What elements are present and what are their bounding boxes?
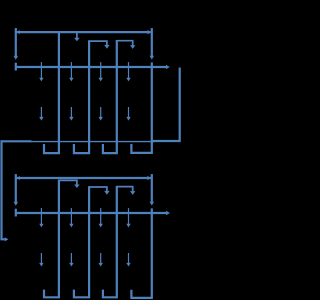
arrow R1C4 row1 thin arrow — [126, 62, 130, 81]
wire V3 vertical from H1 with bottom hook loop — [44, 32, 59, 153]
arrow R4C3 row4 thin arrow — [99, 253, 103, 267]
wire B1 bracket riser with bottom hook loop — [74, 40, 89, 153]
arrow R2C1 row2 thin arrow — [39, 107, 43, 121]
wire H1 top bus with arrowheads both ends — [16, 30, 151, 34]
wire B2b bracket top with down arrow — [117, 187, 136, 195]
arrow A1 short down arrow from H1 — [74, 32, 80, 41]
arrow R3C2 row3 thin arrow — [69, 208, 73, 227]
arrow R2C3 row2 thin arrow — [99, 107, 103, 121]
wire B1b bracket riser with bottom hook loop — [74, 186, 89, 297]
arrow R2C2 row2 thin arrow — [69, 107, 73, 121]
node V1 stub at H2 left end — [15, 63, 17, 71]
arrow R2C4 row2 thin arrow — [126, 107, 130, 121]
arrow R3C4 row3 thin arrow — [126, 208, 130, 227]
arrow R3C3 row3 thin arrow — [99, 208, 103, 227]
wire left feedback route with right arrow — [2, 140, 9, 241]
arrow R4C2 row4 thin arrow — [69, 253, 73, 267]
arrow R1C1 row1 thin arrow — [39, 62, 43, 81]
node V1b stub at H2b left end — [15, 209, 17, 217]
wire H3b bottom bus thin segment — [31, 141, 155, 143]
arrow R1C2 row1 thin arrow — [69, 62, 73, 81]
arrow R4C4 row4 thin arrow — [126, 253, 130, 267]
wire V4 right vertical elbow into V2 — [151, 68, 180, 142]
arrow R3C1 row3 thin arrow — [39, 208, 43, 227]
wire B2 bracket riser with bottom hook loop — [103, 40, 117, 153]
wire B2b bracket riser with bottom hook loop — [103, 186, 117, 297]
wire B1 bracket top with down arrow — [89, 41, 110, 49]
wire V1 top-left vertical with down arrow — [14, 28, 19, 60]
wire V2 lower vertical with bottom hook loop — [131, 62, 151, 152]
wire V2 upper vertical with down arrow — [150, 28, 155, 59]
wire B2 bracket top with down arrow — [117, 41, 136, 49]
wire V2b upper vertical with down arrow — [150, 174, 155, 205]
wire H2b second bus with right arrow — [16, 211, 170, 215]
wire H3a bottom bus left thick segment — [2, 140, 32, 142]
arrow R4C1 row4 thin arrow — [39, 253, 43, 267]
wire H1b lower bus with arrowheads both ends — [16, 176, 151, 180]
wire H2 second bus with right arrow — [16, 65, 170, 69]
wire B1b bracket top with down arrow — [89, 187, 110, 195]
wire V2b lower vertical with bottom hook loop — [131, 208, 151, 298]
arrow R1C3 row1 thin arrow — [99, 62, 103, 81]
wire V3b riser with bottom hook loop — [44, 180, 59, 298]
wire V1b lower-half vertical with down arrow — [14, 174, 19, 206]
wire V3b bracket top with down arrow — [59, 180, 80, 188]
